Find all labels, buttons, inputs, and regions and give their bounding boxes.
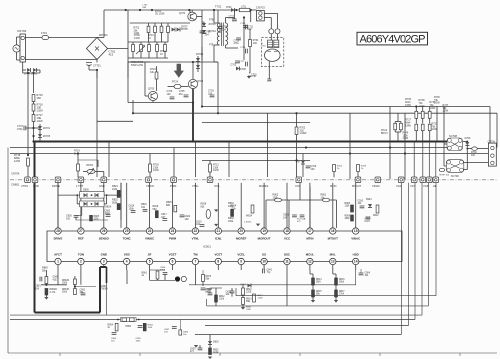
resistor R725b [357,165,360,172]
wire bus above IC right [266,199,337,201]
svg-text:VINOC: VINOC [146,184,154,188]
capacitor C715 [246,25,248,30]
svg-text:104: 104 [311,168,316,171]
svg-text:SC709: SC709 [451,175,459,178]
wire secondary gnd [249,56,251,73]
svg-text:104: 104 [205,33,210,36]
svg-text:SF: SF [148,253,152,257]
junction [132,112,134,114]
svg-text:TM: TM [193,253,198,257]
ground mark [208,357,212,359]
svg-text:1/8W: 1/8W [405,124,411,127]
zener Z8701 [202,23,206,27]
capacitor C702 [235,61,240,63]
resistor R717 [32,115,35,122]
resistor R734 [421,124,424,131]
svg-text:26: 26 [102,229,106,233]
wire [25,37,42,39]
wire [250,10,252,22]
svg-text:C47: C47 [161,216,166,219]
svg-text:P7B: P7B [209,19,214,22]
svg-text:1/2W: 1/2W [153,169,159,172]
svg-text:2M9: 2M9 [316,282,321,284]
wire [128,61,150,63]
resistor R728 [421,111,424,118]
junction [192,140,194,142]
svg-text:R832D: R832D [62,280,69,282]
resistor R861 [45,277,48,284]
wire [228,142,230,178]
block arrow symbol [174,64,184,78]
potentiometer VR702 arrow [136,46,145,54]
zener Z8704 [196,65,200,69]
svg-text:11: 11 [285,260,289,264]
wire [96,70,98,177]
svg-text:R805: R805 [94,216,100,218]
wire [145,95,148,97]
part number label A606Y4V02GP [357,32,428,45]
svg-text:REF: REF [78,237,84,241]
svg-text:6: 6 [172,260,174,264]
svg-text:CN704: CN704 [11,172,20,176]
svg-text:7809A: 7809A [101,288,108,291]
resistor R832 [231,209,234,216]
resistor R741 [154,26,157,32]
svg-text:102: 102 [185,218,190,221]
zener Z870A [202,30,206,34]
wire [179,320,181,330]
svg-text:10: 10 [262,260,266,264]
connector pin [433,177,439,183]
junction [404,152,406,154]
capacitor C705 [184,95,189,97]
diode D861 [248,284,252,288]
capacitor C706 [218,27,223,29]
wire [74,276,76,279]
capacitor C841 [263,269,265,274]
capacitor C805 [106,215,111,217]
svg-text:VSD: VSD [124,253,130,257]
capacitor C829 [198,348,203,350]
connector pin [420,177,426,183]
bridge rectifier D8701 [87,38,108,60]
wire pin drop [57,183,59,228]
svg-text:R909: R909 [345,216,351,218]
svg-text:563: 563 [153,208,158,211]
ground mark [334,300,338,303]
svg-text:MCUL: MCUL [306,253,315,257]
diode D704 [22,62,24,70]
resistor R79F oval [439,168,444,171]
thick bus stub to IC GND pin [100,266,107,268]
capacitor C713 [236,38,241,40]
svg-text:R802: R802 [213,350,219,352]
svg-text:120E: 120E [246,292,252,294]
svg-text:ICNL: ICNL [214,184,220,188]
capacitor C7701 [86,63,92,66]
wire risers to row [413,142,415,178]
svg-text:VINAC: VINAC [351,237,361,241]
wire [302,154,304,161]
wire top rail [104,9,257,11]
connector pin [25,177,31,183]
svg-text:C702: C702 [231,64,237,67]
svg-text:100k: 100k [273,196,279,199]
svg-text:Z0705: Z0705 [43,135,51,138]
svg-text:450: 450 [37,96,42,100]
zener D8705 [39,130,41,135]
thick bus wire right riser [99,267,101,313]
wire [235,288,237,296]
svg-text:1 TNT: 1 TNT [76,184,84,188]
degauss coil L761 [274,40,279,48]
resistor R879 [202,275,205,282]
wire degauss [264,12,277,14]
wire [128,61,218,63]
capacitor C912 [366,217,371,219]
svg-text:R833D: R833D [62,289,69,291]
capacitor C720 [170,97,175,99]
resistor R715 [32,95,35,102]
resistor R812a [242,288,245,295]
resistor R729 [428,111,431,118]
resistor R802b [209,348,212,355]
wire [96,60,98,63]
wire [395,121,401,123]
wire [173,148,175,178]
svg-text:23: 23 [171,229,175,233]
svg-text:BPC4: BPC4 [381,132,388,135]
resistor R721 [209,164,212,172]
wire [296,113,298,127]
resistor R814 [312,278,315,285]
svg-text:CN801: CN801 [11,183,20,187]
wire secondary rails [225,45,227,48]
resistor R816 [155,211,158,218]
wire bus corner [408,183,410,326]
svg-text:24: 24 [148,229,152,233]
svg-text:28: 28 [56,229,60,233]
wire [37,69,41,71]
IC601 top pin 23 PWM [169,228,175,234]
diode block D803 [121,318,137,322]
wire pin drop [286,183,288,228]
wire [128,57,168,59]
resistor R802 oval [275,198,282,202]
diode D711 [177,28,181,32]
resistor R862b [253,294,256,302]
svg-text:MGROUT: MGROUT [258,237,271,241]
wire bus corner [421,183,423,315]
wire pin drop [126,183,128,228]
svg-text:VR701: VR701 [86,164,94,167]
svg-text:C713: C713 [234,41,240,43]
diode D709 [301,161,305,165]
svg-text:D706: D706 [465,137,471,140]
wire pin drop [332,183,334,228]
diode D802 [208,341,212,345]
svg-text:470p: 470p [17,128,23,131]
svg-text:160k: 160k [62,292,68,294]
capacitor C703 [210,95,215,97]
wire [127,62,129,78]
degaussing coil box [261,38,284,67]
svg-text:103k: 103k [129,207,135,210]
wire [81,207,83,216]
diode D710 [172,28,176,32]
border ticks [59,353,61,356]
resistor R716 [32,104,35,111]
wire [217,62,219,113]
wire [149,270,151,280]
wire [76,219,108,221]
capacitor C804b [112,333,117,335]
svg-text:PWM: PWM [169,237,177,241]
svg-text:100E: 100E [105,213,111,215]
wire bus corner [428,183,430,306]
wire [389,107,391,180]
svg-text:R816: R816 [339,279,345,281]
svg-text:R879: R879 [206,276,212,278]
svg-text:334: 334 [141,206,146,209]
resistor R724a [394,123,397,130]
wire [152,101,154,103]
svg-text:F701: F701 [41,31,47,35]
svg-text:R79F 10k: R79F 10k [440,175,450,177]
svg-text:104: 104 [208,92,213,95]
svg-text:2: 2 [80,260,82,264]
wire [80,270,82,285]
svg-text:19: 19 [262,229,266,233]
resistor R743 [167,26,170,32]
svg-text:MTIN: MTIN [306,237,313,241]
IC601 top pin 28 DRIVE [55,228,61,234]
svg-text:R904: R904 [108,325,114,327]
svg-text:C904: C904 [365,273,371,275]
wire [58,194,80,196]
svg-text:CN702: CN702 [17,29,27,33]
resistor R904 [251,205,254,213]
svg-text:160k: 160k [228,220,234,223]
connector pin [55,177,61,183]
wire [33,102,35,105]
diode D904 [368,204,372,208]
component C860 [179,330,182,335]
svg-text:C803: C803 [80,290,86,292]
svg-text:1/2W: 1/2W [134,37,140,40]
svg-text:21: 21 [217,229,221,233]
wire [286,270,288,306]
wire [217,10,219,23]
wire [265,200,267,228]
wire y160 [202,160,310,162]
svg-text:30k6: 30k6 [339,282,345,284]
connector pin [411,177,417,183]
svg-text:1: 1 [57,260,59,264]
capacitor C707 [24,126,26,131]
svg-text:1/2W: 1/2W [434,102,440,105]
svg-text:DRIVE: DRIVE [54,237,63,241]
svg-text:D805: D805 [83,189,89,192]
svg-text:14: 14 [354,260,358,264]
wire [16,37,18,45]
IC601 top pin 25 TONC [124,228,130,234]
wire [194,142,196,178]
wire [128,41,168,43]
resistor R909 [351,215,354,221]
svg-text:110k: 110k [345,206,351,208]
svg-text:TONC: TONC [123,237,132,241]
svg-text:6.8/3: 6.8/3 [365,221,371,223]
wire bus y121 [97,120,133,122]
capacitor C844 [208,293,213,295]
svg-text:C715: C715 [240,23,246,25]
wire pin drop [355,183,357,228]
wire pin drop [240,183,242,228]
wire [464,162,489,164]
svg-text:MTIN: MTIN [330,184,336,188]
resistor R749 [164,45,167,52]
wire left border vertical [7,148,9,354]
wire [120,183,122,228]
wire secondary top [225,18,227,24]
svg-text:R815: R815 [316,291,322,293]
svg-text:Q703: Q703 [197,80,204,83]
svg-text:680: 680 [166,204,171,207]
svg-text:D904: D904 [366,199,372,201]
svg-text:R813: R813 [246,299,252,301]
svg-text:C711: C711 [248,27,254,29]
wire [404,113,406,179]
junction [389,146,391,148]
wire [103,265,105,267]
ground mark [194,345,198,348]
wire [206,299,208,306]
connector pin [398,177,404,183]
capacitor C816 [131,211,136,213]
svg-text:103k: 103k [112,188,118,191]
capacitor C761 [200,31,205,33]
IC601 top pin 24 VINOC [146,228,152,234]
svg-text:DRIVE: DRIVE [52,184,60,188]
wire [127,10,129,49]
capacitor C710 [243,26,248,28]
svg-text:Z8707: Z8707 [181,27,188,29]
wire y284 mid [189,284,265,286]
capacitor C888 [201,288,206,290]
junction [349,152,351,154]
svg-text:3: 3 [103,260,105,264]
capacitor C822 [180,215,185,217]
svg-text:D708: D708 [240,68,246,71]
capacitor C716 [246,49,248,54]
svg-text:OSC: OSC [284,253,291,257]
degauss connector pins [269,29,274,34]
svg-text:Z0701: Z0701 [209,23,217,26]
transistor Q701 [188,12,197,21]
wire bus y147 [10,147,447,149]
test point dot [175,276,180,281]
resistor R724 oval [174,84,181,88]
svg-text:C805: C805 [105,211,111,213]
connector pin [78,177,84,183]
wire [243,18,245,27]
connector pin [375,177,381,183]
svg-text:1/2W: 1/2W [37,119,44,123]
resistor R733 [415,124,418,131]
svg-text:180k: 180k [345,218,351,220]
wire left column [33,73,35,93]
svg-text:36 1/2W: 36 1/2W [155,13,165,16]
wire pin drop [80,183,82,228]
svg-text:R817: R817 [339,291,345,293]
svg-text:HSD: HSD [353,253,359,257]
wire [436,107,438,142]
svg-text:D802: D802 [213,341,219,344]
svg-text:W824: W824 [246,216,253,218]
resistor R747 [148,45,151,52]
ground mark [214,224,218,227]
junction [201,105,203,107]
wire pin drop [103,183,105,228]
capacitor C7707 [233,10,235,19]
resistor R905b [143,323,146,331]
svg-text:R812: R812 [219,296,225,298]
ground mark [256,224,260,227]
resistor R826 [174,205,177,212]
wire bus corner [414,183,416,320]
wire [108,48,129,50]
resistor R702 [295,127,298,135]
capacitor C910 [360,206,365,208]
svg-text:VTNS: VTNS [21,184,28,188]
svg-text:VINOC: VINOC [145,237,155,241]
svg-text:415: 415 [109,53,114,57]
thick bus wire vertical left [34,142,36,313]
transistor Q703 [188,79,197,88]
svg-text:VCC: VCC [284,237,291,241]
thick bus wire horizontal [34,141,448,143]
wire bus y153 [10,153,488,155]
svg-text:VGD: VGD [396,184,402,188]
wire [49,37,98,39]
svg-text:100: 100 [253,42,258,45]
wire [103,10,105,38]
svg-text:9: 9 [240,260,242,264]
resistor R723 [155,72,158,79]
ground mark [311,300,315,303]
wire bus corner [435,183,437,296]
svg-text:1k4E: 1k4E [213,352,219,354]
svg-text:GND: GND [33,184,39,188]
svg-text:GND: GND [101,253,107,257]
wire bus corner [400,183,402,335]
svg-text:17: 17 [308,229,312,233]
svg-text:VCET: VCET [169,253,177,257]
svg-text:PWM: PWM [170,184,176,188]
svg-text:D860: D860 [126,326,132,328]
resistor R910 [376,205,379,213]
svg-text:C912: C912 [365,219,371,221]
resistor R725 [400,123,403,130]
wire [299,183,301,200]
connector pin [427,177,433,183]
svg-text:Z0703: Z0703 [196,53,204,56]
svg-text:C841: C841 [267,270,273,272]
wire [95,171,104,173]
svg-text:7: 7 [195,260,197,264]
resistor R815 [312,290,315,297]
